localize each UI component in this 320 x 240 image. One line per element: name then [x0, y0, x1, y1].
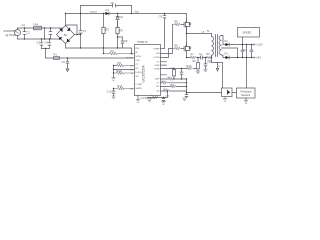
wire secondary bottom branch: [222, 55, 226, 57]
svg-text:VREF: VREF: [154, 48, 160, 50]
wire bridge bottom to 0V rail: [65, 44, 67, 49]
wire top AC rail: [18, 27, 63, 29]
ground: [112, 96, 116, 99]
capacitor C6 (snubber): [113, 4, 116, 7]
capacitor C14: [180, 69, 183, 80]
feedback network box: [237, 88, 256, 98]
svg-text:L1a: L1a: [34, 22, 39, 26]
svg-text:1N4007: 1N4007: [90, 12, 98, 14]
optocoupler U2: [222, 88, 233, 97]
wire feedback tap: [246, 45, 248, 89]
transformer T1: [212, 34, 222, 58]
capacitor C5 (Y-cap to earth): [66, 58, 69, 66]
svg-text:Vcc: Vcc: [135, 10, 140, 14]
load box: [238, 28, 260, 38]
resistor R5 (gate): [173, 23, 182, 26]
wire row3 (opto feedback line): [161, 86, 187, 88]
svg-text:D4: D4: [225, 53, 229, 56]
ground: [148, 99, 152, 102]
svg-text:INV: INV: [136, 48, 140, 50]
resistor R4 (to pin): [104, 52, 135, 55]
svg-text:R9: R9: [118, 61, 122, 65]
svg-text:C4: C4: [45, 41, 49, 45]
resistor R8 (vertical, to gnd): [196, 58, 200, 74]
capacitor C11: [241, 45, 244, 58]
capacitor C10 (to gnd): [204, 58, 208, 72]
IC pin labels: [136, 48, 161, 93]
resistor R15d: [164, 90, 170, 93]
wire: [17, 28, 19, 39]
resistor R1: [54, 57, 60, 60]
svg-text:SPEED: SPEED: [243, 31, 252, 35]
svg-text:NI: NI: [136, 52, 139, 54]
svg-text:R3: R3: [120, 29, 124, 33]
wire primary bottom to aux path: [212, 58, 223, 89]
resistor R15b: [162, 82, 168, 85]
IC bottom cluster: gnd pin: [137, 96, 139, 100]
wire IC stubs: [161, 62, 167, 75]
wire: [42, 49, 50, 59]
svg-text:RT: RT: [136, 68, 140, 70]
svg-text:R4: R4: [111, 49, 115, 53]
svg-text:2T: 2T: [218, 66, 221, 68]
svg-text:SYNC: SYNC: [136, 56, 142, 58]
capacitor C2 (X-cap): [49, 28, 52, 39]
diode D1: [106, 12, 109, 15]
capacitor C13: [112, 89, 115, 97]
output arrow +5V: [253, 57, 255, 59]
transistor Q1 (MOSFET): [181, 19, 191, 34]
wire secondary center tap: [222, 48, 238, 58]
labels (tiny text): [4, 1, 263, 100]
wire output +5V rail: [234, 57, 254, 59]
svg-text:D1: D1: [106, 8, 110, 12]
svg-text:D3: D3: [225, 40, 229, 43]
ground (opto): [223, 97, 227, 102]
svg-text:VIN: VIN: [156, 53, 160, 55]
svg-text:T1: T1: [207, 29, 211, 33]
svg-text:OUTA: OUTA: [154, 67, 160, 70]
svg-text:C1: C1: [22, 23, 26, 27]
svg-text:Network: Network: [241, 94, 251, 97]
svg-text:Cs: Cs: [199, 53, 203, 56]
svg-text:10k: 10k: [130, 88, 133, 90]
capacitor C8: [118, 37, 124, 48]
svg-text:R11: R11: [118, 84, 123, 88]
bridge rectifier B1: [57, 26, 75, 44]
wire gate drive A: [161, 25, 173, 54]
svg-text:R9: R9: [207, 53, 211, 56]
resistor R3 (vertical): [117, 22, 119, 49]
svg-text:SENSE: SENSE: [126, 58, 133, 60]
capacitor Cs (series): [201, 56, 203, 59]
svg-text:R7: R7: [191, 54, 195, 57]
ground: [244, 101, 248, 104]
resistor R9: [117, 64, 135, 67]
svg-text:R2: R2: [106, 28, 110, 32]
wire bridge over-top link: [66, 25, 78, 35]
capacitor C3 (Y-cap): [40, 39, 43, 49]
resistor R2 (startup, vertical): [103, 14, 105, 54]
wire load box to +12V rail: [242, 37, 244, 45]
svg-text:R6: R6: [175, 44, 179, 48]
wire secondary top branch: [222, 36, 226, 45]
wire snubber top rail: [81, 5, 132, 7]
svg-text:R10: R10: [117, 69, 122, 73]
svg-text:C2: C2: [27, 31, 31, 35]
svg-text:CT: CT: [157, 82, 161, 84]
wire source to primary bottom: [187, 57, 212, 59]
svg-text:C8: C8: [124, 39, 128, 43]
svg-text:C16: C16: [165, 96, 170, 98]
capacitor C9 (VCC decouple): [163, 14, 166, 49]
wire feedback box ground: [245, 98, 247, 101]
IC right cluster: wire: [161, 68, 197, 70]
transistor Q2 (MOSFET): [181, 43, 191, 58]
wire switch node: [187, 28, 212, 46]
svg-text:Lp: Lp: [202, 30, 205, 33]
resistor R15a: [169, 78, 175, 81]
svg-text:1n: 1n: [131, 73, 133, 75]
svg-text:C6: C6: [111, 1, 115, 5]
svg-text:PWM IC: PWM IC: [138, 40, 148, 44]
resistor R11: [114, 87, 135, 90]
output arrow +12V: [253, 44, 255, 46]
svg-text:@ 50Hz: @ 50Hz: [6, 33, 17, 37]
svg-text:+12V: +12V: [256, 43, 263, 47]
AC source V1: [15, 30, 21, 36]
capacitor C15: [183, 93, 188, 101]
zener diode D2: [116, 14, 119, 28]
wire opto to feedback box: [232, 92, 237, 94]
wire: [131, 6, 133, 14]
wire IC left pin: [114, 69, 135, 71]
wire bus to opto: [187, 79, 222, 93]
svg-text:C9: C9: [159, 15, 163, 19]
ground (earth arrow): [66, 66, 69, 72]
resistor R15c: [171, 85, 177, 88]
svg-text:DISCH: DISCH: [136, 72, 143, 74]
inductor L1 (filter choke): [34, 26, 42, 30]
svg-text:R5: R5: [175, 20, 179, 24]
resistor R6 (gate): [173, 47, 182, 50]
svg-text:CT: CT: [136, 64, 140, 66]
resistor R9b: [207, 56, 212, 59]
wire 0V rail: [66, 48, 132, 54]
wire bottom AC rail: [18, 38, 62, 40]
svg-text:1k2: 1k2: [130, 54, 134, 56]
svg-text:CMP: CMP: [155, 79, 160, 81]
wire row1: [161, 78, 187, 80]
wire bias divider vertical: [113, 66, 115, 78]
diode D4: [226, 56, 234, 59]
svg-text:SS: SS: [136, 76, 139, 78]
wire row4: [161, 90, 187, 92]
svg-text:VC: VC: [156, 61, 159, 63]
capacitor C16: [162, 98, 166, 105]
svg-text:C3: C3: [37, 41, 41, 45]
capacitor C12: [250, 45, 253, 58]
svg-text:SHDN: SHDN: [136, 88, 143, 90]
wire output +12V rail: [234, 44, 254, 46]
wire row2: [161, 82, 187, 84]
svg-text:OUTB: OUTB: [153, 57, 160, 59]
IC U1 (PWM controller): [135, 45, 161, 96]
svg-text:B1: B1: [64, 33, 68, 37]
wire RT/CT: [148, 91, 168, 98]
wire gate drive B: [161, 49, 173, 58]
capacitor C1 (X-cap): [23, 28, 26, 39]
wire DC+ rail: [66, 13, 187, 15]
wire bridge top to DC+ rail: [65, 14, 67, 26]
svg-text:R1: R1: [54, 53, 58, 57]
svg-text:GND: GND: [155, 65, 160, 67]
wire DC rail drop to Q1 drain: [186, 14, 188, 22]
svg-text:R8: R8: [193, 60, 197, 63]
wire to IC pin: [161, 48, 165, 50]
resistor R7 (sense): [191, 56, 196, 59]
svg-text:OSC: OSC: [136, 60, 141, 62]
svg-text:+5V: +5V: [256, 56, 261, 60]
ground: [112, 78, 116, 81]
resistor R13 (vertical box): [173, 69, 176, 80]
ground: [136, 100, 140, 103]
svg-text:RT: RT: [157, 86, 161, 88]
svg-text:C5: C5: [62, 60, 66, 64]
wire bridge right to bulk cap: [75, 34, 81, 36]
capacitor C7 (bulk): [79, 6, 82, 49]
svg-text:COMP: COMP: [136, 84, 143, 86]
diode D3: [226, 43, 234, 46]
wire: [44, 28, 46, 39]
ground (shield arrow): [216, 63, 218, 72]
svg-text:C13: C13: [107, 90, 112, 94]
svg-text:C7: C7: [83, 29, 87, 33]
svg-text:R12: R12: [187, 64, 192, 68]
wire IC left pin COMP: [114, 65, 117, 67]
svg-text:D2: D2: [120, 15, 124, 19]
resistor R12: [187, 67, 193, 70]
resistor R15: [153, 96, 159, 99]
wire long earth/sense line: [46, 57, 135, 59]
svg-text:SD: SD: [156, 91, 159, 93]
resistor R10: [114, 72, 135, 75]
capacitor C4 (Y-cap): [48, 39, 51, 49]
